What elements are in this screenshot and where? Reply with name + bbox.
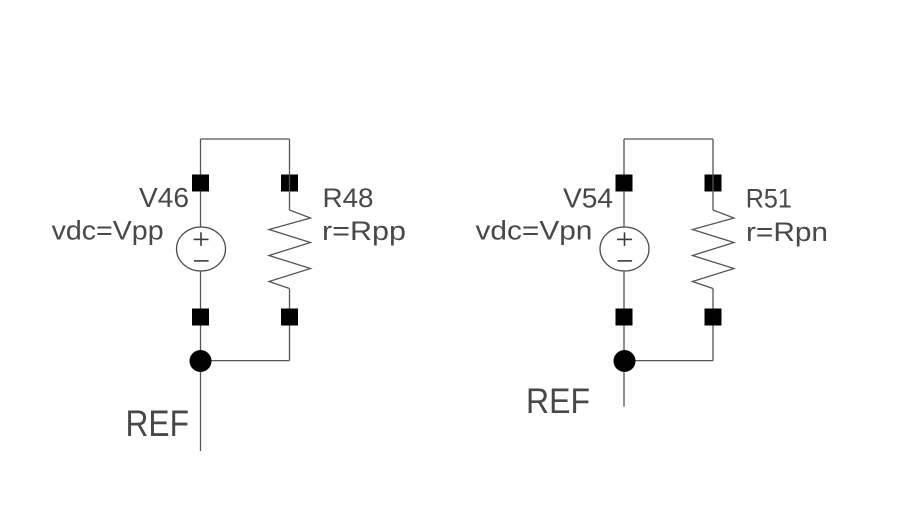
wire: left vertical from top wire to V54 circle [623,139,625,227]
pin square: V46 positive terminal [192,175,209,192]
minus sign of V46 [194,260,209,262]
voltage source V46 circle [177,227,226,271]
plus sign of V54 [617,238,632,240]
pin square: R48 bottom terminal [281,309,298,326]
minus sign of V54 [618,260,633,262]
wire: left vertical from V54 circle to REF node [623,271,625,361]
wire: right vertical from resistor R51 to bottom square [712,289,714,361]
svg-text:REF: REF [526,382,590,421]
node junction dot (REF net, left) [190,350,212,372]
pin square: V54 positive terminal [616,175,633,192]
svg-text:R48: R48 [323,183,374,213]
node junction dot (REF net, right) [614,350,636,372]
resistor R48 zigzag body [269,210,311,289]
svg-text:r=Rpn: r=Rpn [746,217,828,247]
voltage source V54 circle [600,227,649,271]
wire: REF net stub going down (left) [200,372,202,451]
wire: right vertical from top wire to resistor R51 [712,139,714,210]
pin square: V46 negative terminal [192,309,209,326]
svg-text:R51: R51 [746,183,792,213]
pin square: R51 top terminal [705,175,722,192]
wire: left vertical from top wire to V46 circle [200,139,202,227]
svg-text:REF: REF [126,403,190,444]
plus sign of V46 [194,238,209,240]
wire: left vertical from V46 circle to REF node [200,271,202,361]
resistor R51 zigzag body [693,210,735,289]
wire: bottom horizontal joining node to R48 branch [201,360,290,362]
wire: top horizontal joining V54 and R51 [624,138,713,140]
wire: right vertical from resistor R48 to bottom square [289,289,291,361]
pin square: V54 negative terminal [616,309,633,326]
wire: REF net stub going down (right) [623,372,625,407]
svg-text:V46: V46 [139,182,189,213]
wire: bottom horizontal joining node to R51 branch [624,360,713,362]
pin square: R51 bottom terminal [705,309,722,326]
svg-text:vdc=Vpp: vdc=Vpp [52,216,164,246]
svg-text:V54: V54 [563,183,613,214]
pin square: R48 top terminal [281,175,298,192]
wire: top horizontal joining V46 and R48 [201,138,290,140]
wire: right vertical from top wire to resistor R48 [289,139,291,210]
svg-text:r=Rpp: r=Rpp [322,216,406,246]
svg-text:vdc=Vpn: vdc=Vpn [476,216,593,246]
